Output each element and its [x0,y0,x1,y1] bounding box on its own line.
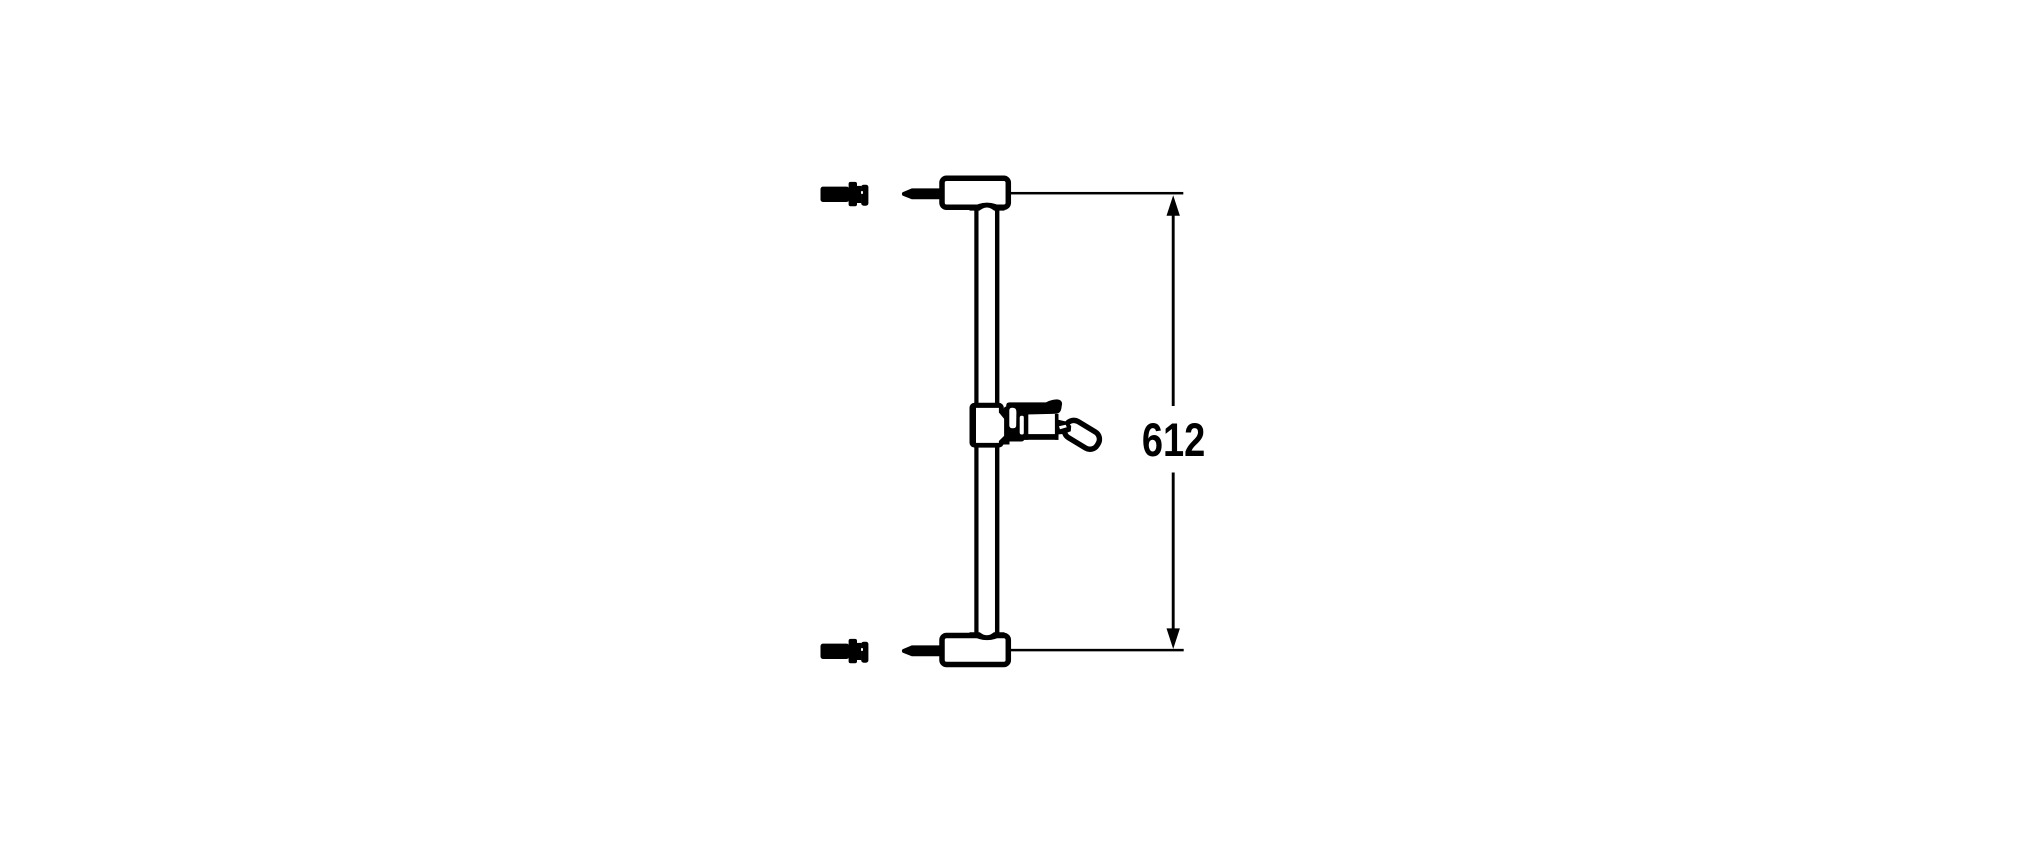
wall plug (anchor) bottom [821,639,869,663]
slider holder left section [1004,407,1025,442]
dimension text 612 [1142,414,1205,467]
holder cup white interior [1028,415,1055,434]
rail tube left edge line [974,205,978,637]
holder slot white crescent [1009,408,1016,429]
wall plug (anchor) top [821,182,869,206]
lever handle [1061,417,1102,452]
holder cup right wall [1055,414,1059,440]
holder cup bottom wall [1024,434,1059,440]
rail tube white interior channel [979,208,995,636]
holder gap white sliver [1020,416,1024,435]
pivot nub white notch [1059,425,1067,430]
wall bracket top [942,178,1008,210]
dimension line lower segment [1172,473,1175,631]
pivot nub [1058,420,1071,435]
slider holder neck [1002,410,1010,445]
svg-text:612: 612 [1142,414,1205,467]
slider holder top bar [1006,399,1062,415]
extension line top [1011,192,1183,195]
mounting screw top [902,188,943,199]
rail tube right edge line [995,205,1000,637]
wall bracket bottom [942,632,1008,664]
holder cup left wall [1024,414,1029,440]
slider block on rail [970,403,1005,448]
mounting screw bottom [902,645,943,656]
arrowhead down [1167,628,1180,649]
extension line bottom [1011,649,1184,652]
arrowhead up [1167,195,1180,216]
dimension line upper segment [1172,212,1175,406]
